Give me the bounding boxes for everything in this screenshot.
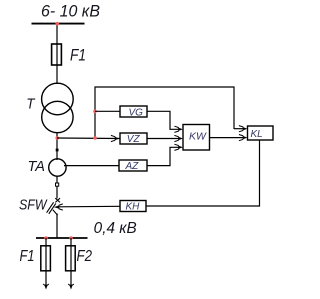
arrow top rail into KL: [239, 126, 248, 132]
bus 6-10 kV: [32, 23, 85, 25]
wire: KH to KL bottom: [146, 140, 260, 206]
svg-text:0,4 кВ: 0,4 кВ: [94, 220, 137, 237]
bus 0.4 kV: [36, 237, 88, 239]
node on 0.4 kV bus left: [44, 236, 48, 240]
node at transformer output: [55, 136, 59, 140]
svg-text:AZ: AZ: [125, 161, 140, 172]
svg-text:VZ: VZ: [127, 134, 141, 145]
svg-text:KL: KL: [251, 129, 263, 140]
wire: top rail of voltage loop: [95, 87, 234, 138]
node VG tap: [93, 110, 97, 114]
svg-text:KH: KH: [126, 201, 141, 212]
wire: top rail into KL: [234, 128, 243, 130]
svg-text:F2: F2: [77, 248, 93, 265]
node on 0.4 kV bus right: [69, 236, 73, 240]
relay box VG: [120, 106, 147, 117]
node on 6-10 kV bus: [55, 22, 59, 26]
wire: TA down to breaker: [56, 176, 58, 199]
wire: bus to fuse F1: [56, 24, 58, 84]
svg-text:SFW: SFW: [19, 198, 48, 214]
wire: feeder 2: [70, 238, 72, 286]
fuse F1 (HV): [52, 44, 62, 65]
wire: feeder 1: [45, 238, 47, 286]
arrow VZ into KW: [174, 135, 183, 141]
svg-text:F1: F1: [20, 248, 35, 265]
svg-text:T: T: [26, 96, 36, 113]
relay box KL: [248, 126, 274, 140]
svg-text:VG: VG: [129, 107, 144, 118]
relay box VZ: [120, 133, 147, 144]
svg-text:F1: F1: [70, 47, 86, 65]
wire: AZ to KW: [147, 147, 179, 165]
node VZ crossing: [93, 136, 97, 140]
wire: KW to KL: [210, 137, 244, 139]
transformer T primary winding: [42, 83, 74, 115]
wire: transformer to TA: [56, 133, 58, 161]
feeder 1 arrow: [43, 284, 49, 290]
wire: VZ to KW: [147, 138, 179, 140]
relay box AZ: [119, 160, 147, 171]
breaker SFW blade: [47, 202, 58, 215]
wire: TA to AZ: [64, 165, 119, 167]
transformer T secondary winding: [42, 101, 73, 132]
wire: KH to breaker: [59, 205, 120, 208]
svg-text:6- 10 кВ: 6- 10 кВ: [41, 3, 100, 21]
meter box KW: [183, 125, 210, 151]
wire: breaker to 0.4 kV bus: [56, 214, 58, 239]
fuse F2 (LV): [66, 246, 76, 271]
wire: tap to VG: [95, 110, 120, 112]
breaker SFW contact cross: [55, 198, 60, 202]
wire: VZ row from transformer junction: [57, 137, 120, 140]
wire: VG to KW: [147, 111, 179, 129]
relay box KH: [120, 201, 146, 212]
svg-text:KW: KW: [189, 131, 207, 143]
feeder 2 arrow: [68, 284, 74, 290]
terminal marker (open square) on wire: [56, 183, 59, 186]
arrow VG into KW: [174, 126, 183, 132]
grip marker (filled square) on wire: [56, 149, 59, 152]
arrow KW into KL: [239, 135, 248, 141]
arrow AZ into KW: [174, 144, 183, 150]
current transformer TA: [49, 159, 66, 176]
arrow into VZ: [111, 135, 120, 141]
svg-text:TA: TA: [28, 158, 46, 175]
fuse F1 (LV): [41, 246, 51, 271]
trip arrow from KH to breaker: [54, 204, 63, 210]
